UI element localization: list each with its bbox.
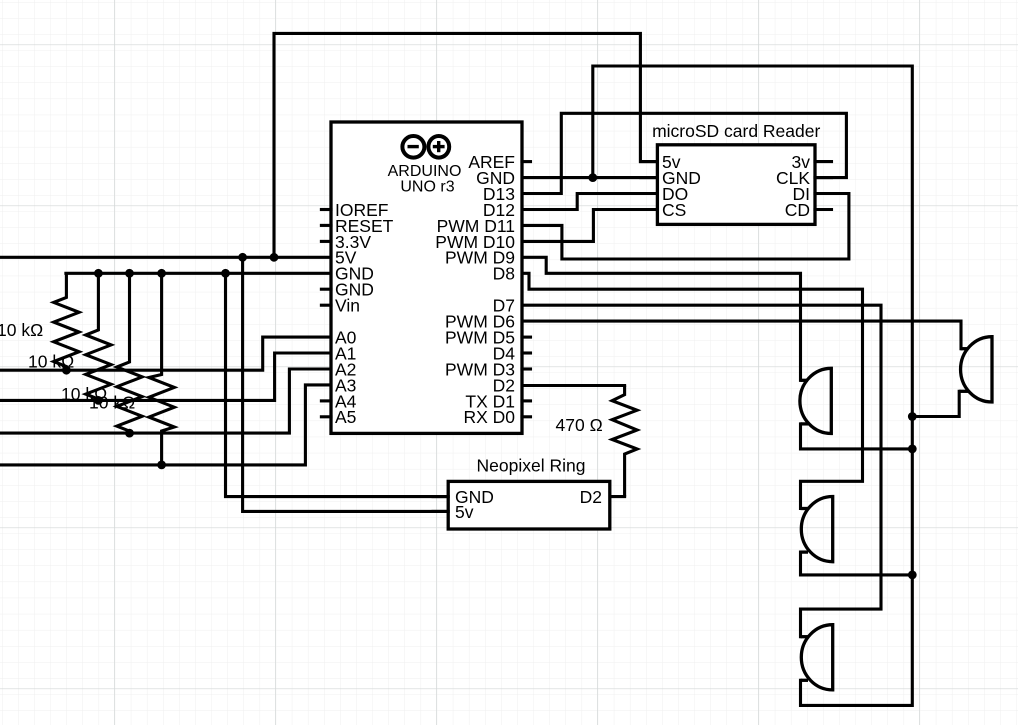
pin Vin — [321, 304, 331, 307]
pin u2 CS — [641, 208, 658, 211]
resistor R3 10k — [117, 273, 142, 433]
pin D4 — [522, 351, 531, 354]
wire Arduino GND right to microSD GND — [522, 176, 657, 179]
junction GND spine/speaker — [908, 412, 917, 421]
piezo P3 — [801, 625, 833, 690]
wire piezo 2 bottom to GND spine — [801, 552, 913, 575]
wire A0 net — [0, 337, 331, 370]
resistor R5 470 — [612, 386, 637, 497]
svg-text:ARDUINO: ARDUINO — [388, 163, 462, 180]
wire D11 to microSD DI — [522, 194, 849, 260]
pin u3 5v — [433, 510, 448, 513]
piezo P2 — [801, 497, 833, 562]
pin u2 5v — [641, 160, 658, 163]
junction A1/R2 — [94, 396, 103, 405]
pin GND2 — [321, 288, 331, 291]
svg-text:CD: CD — [785, 200, 810, 220]
svg-text:10 kΩ: 10 kΩ — [0, 320, 43, 340]
microSD pin stubs — [641, 162, 832, 210]
pin u2 GND — [641, 176, 658, 179]
wire A3 net — [0, 385, 331, 465]
pin D1 — [522, 399, 531, 402]
pin u2 3v — [815, 160, 832, 163]
svg-text:10 kΩ: 10 kΩ — [28, 352, 74, 372]
wire GND branch down to Neopixel GND — [226, 273, 449, 496]
pin A5 — [321, 415, 331, 418]
wire D6 to speaker top — [522, 321, 961, 349]
pin A4 — [321, 399, 331, 402]
Arduino logo — [402, 136, 449, 158]
junction GND/NeopixelGND — [221, 269, 230, 278]
wire A2 net — [0, 369, 331, 433]
svg-text:A5: A5 — [335, 407, 356, 427]
wire Neopixel D2 stub — [610, 495, 625, 498]
pin AREF — [522, 160, 531, 163]
wire D13 to microSD CLK — [522, 113, 846, 193]
wire D7 to piezo 3 top — [522, 305, 881, 637]
wire 5V row from left edge to Arduino 5V pin — [0, 256, 331, 259]
svg-text:UNO r3: UNO r3 — [400, 179, 454, 196]
svg-text:microSD card Reader: microSD card Reader — [652, 121, 820, 141]
wire D12 to microSD DO — [522, 194, 657, 210]
pin 3.3V — [321, 240, 331, 243]
junction A0/R1 — [62, 366, 71, 375]
pin IOREF — [321, 208, 331, 211]
op: microSD card reader U2 body — [657, 145, 815, 225]
svg-text:Vin: Vin — [335, 296, 360, 316]
wire GND riser to top rail — [593, 66, 913, 705]
pin u3 GND — [433, 495, 448, 498]
junction GND spine/piezo1 — [908, 445, 917, 454]
Arduino right pin labels — [435, 152, 515, 427]
wire D10 to microSD CS — [522, 210, 657, 242]
wire D2 to resistor R5 — [522, 384, 625, 387]
wire D9 to piezo 1 top — [522, 257, 801, 380]
junction GNDright riser — [588, 173, 597, 182]
wire GND row left to Arduino GND pin — [66, 272, 331, 275]
svg-text:10 kΩ: 10 kΩ — [89, 393, 135, 413]
svg-text:D2: D2 — [580, 487, 602, 507]
piezo P1 — [800, 368, 831, 433]
op: Neopixel Ring U3 body — [448, 481, 610, 529]
pin u2 DO — [641, 192, 658, 195]
pin D5 — [522, 336, 531, 339]
speaker SPK1 — [959, 337, 992, 402]
resistor R1 10k — [54, 273, 79, 370]
resistor R4 10k — [149, 273, 174, 465]
pin u2 CD — [815, 208, 832, 211]
pin u2 DI — [815, 192, 832, 195]
svg-text:RX D0: RX D0 — [463, 407, 515, 427]
wire speaker bottom to GND spine — [912, 391, 959, 416]
neopixel pin stubs — [433, 497, 448, 512]
pin D3 — [522, 367, 531, 370]
wire A1 net — [0, 353, 331, 400]
op: Arduino U1 body — [331, 122, 522, 433]
microSD pin labels — [662, 152, 701, 220]
junction A3/R4 — [157, 461, 166, 470]
junction 5V/Neopixel5v — [238, 253, 247, 262]
pin D0 — [522, 415, 531, 418]
wire D8 to piezo 2 top — [522, 273, 863, 508]
pin u2 CLK — [815, 176, 832, 179]
svg-text:Neopixel Ring: Neopixel Ring — [477, 455, 586, 475]
junction GND spine/piezo2 — [908, 571, 917, 580]
Arduino left pin labels — [335, 200, 394, 427]
Arduino pin stubs left — [321, 162, 530, 417]
svg-text:CS: CS — [662, 200, 686, 220]
wire 5V branch down to Neopixel 5v — [243, 257, 449, 511]
svg-text:5v: 5v — [455, 502, 474, 522]
junction GND/R4 — [157, 269, 166, 278]
svg-text:470 Ω: 470 Ω — [556, 415, 603, 435]
svg-text:D8: D8 — [493, 264, 515, 284]
resistor R2 10k — [86, 273, 111, 400]
pin RESET — [321, 224, 331, 227]
wire piezo 1 bottom to GND spine — [801, 424, 913, 449]
wire 5V net: vertical riser to top and across to microSD 5v — [274, 33, 657, 257]
junction GND/R2 — [94, 269, 103, 278]
junction A2/R3 — [125, 429, 134, 438]
junction GND/R3 — [125, 269, 134, 278]
junction 5V/top riser — [270, 253, 279, 262]
